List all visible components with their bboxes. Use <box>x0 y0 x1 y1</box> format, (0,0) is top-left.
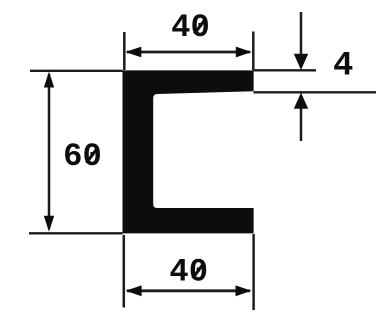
4 dim vertical line upper <box>300 12 303 55</box>
slash of zero in top 40 <box>194 18 206 34</box>
4 dim arrow up <box>294 93 308 109</box>
4 dim vertical line lower <box>300 107 303 141</box>
bottom dim arrow right <box>236 285 252 296</box>
60 dim bottom extension line <box>29 232 123 234</box>
60 dim top extension line <box>30 70 123 72</box>
4 dim arrow down <box>294 54 308 70</box>
svg-text:40: 40 <box>169 254 208 291</box>
60 dim arrow down <box>44 216 54 232</box>
4 dim upper reference line <box>254 69 317 71</box>
bottom dim extension line right <box>252 234 255 310</box>
top dim arrow right <box>236 47 252 58</box>
top dim extension line right <box>252 32 255 71</box>
channel profile cross-section (black U/C shape) <box>123 70 254 233</box>
slash of zero in 60 <box>86 147 98 163</box>
60 dim arrow up <box>44 72 54 88</box>
top dimension line <box>127 51 250 54</box>
slash of zero in bottom 40 <box>193 263 205 279</box>
bottom dim extension line left <box>123 235 126 308</box>
bottom dimension line <box>127 289 250 292</box>
4 dim lower reference line <box>254 91 377 93</box>
top dim arrow left <box>125 47 141 58</box>
60 dimension line <box>48 74 51 229</box>
bottom dim arrow left <box>126 285 142 296</box>
svg-text:40: 40 <box>171 9 210 46</box>
svg-text:60: 60 <box>63 138 102 175</box>
svg-text:4: 4 <box>333 47 353 85</box>
top dim extension line left <box>123 32 126 70</box>
